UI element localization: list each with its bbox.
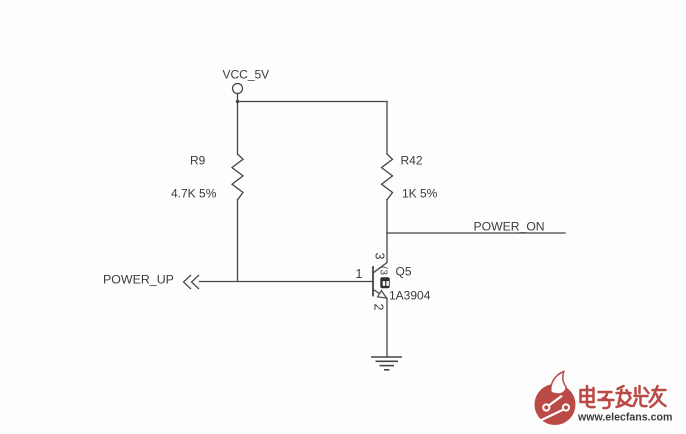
wire left column lower (R9 bottom to base rail) (237, 200, 239, 282)
transistor Q5 collector diagonal (373, 263, 387, 273)
wire base rail POWER_UP (200, 281, 374, 283)
wire emitter to ground (386, 299, 388, 357)
svg-text:1: 1 (356, 267, 363, 281)
pin name mark B bold rotated (380, 277, 389, 288)
svg-text:3: 3 (373, 253, 387, 260)
svg-text:2: 2 (372, 304, 386, 311)
watermark text dianzifashaoyou (581, 386, 666, 408)
wire collector vertical (386, 233, 388, 263)
watermark logo pad left (543, 404, 549, 410)
svg-text:(3: (3 (378, 266, 389, 275)
svg-text:POWER_ON: POWER_ON (474, 220, 545, 234)
svg-text:4.7K 5%: 4.7K 5% (171, 187, 217, 201)
watermark logo disc (535, 384, 576, 425)
wire VCC circle to top rail (237, 94, 239, 102)
resistor R42 body (382, 154, 393, 200)
wire R42 bottom to POWER_ON junction (386, 200, 388, 233)
wire top rail (238, 101, 388, 103)
wire right column upper (to R42 top) (386, 102, 388, 155)
power node VCC_5V circle (233, 84, 243, 94)
watermark logo pad right (563, 404, 569, 410)
resistor R9 body (232, 154, 243, 200)
watermark logo trace upper (549, 396, 562, 406)
wire left column upper (to R9 top) (237, 102, 239, 155)
svg-text:R9: R9 (190, 154, 206, 168)
watermark logo trace lower (541, 410, 564, 421)
svg-text:1A3904: 1A3904 (389, 289, 431, 303)
ground symbol (371, 357, 402, 370)
junction dot at top rail (236, 100, 239, 103)
transistor Q5 base bar (372, 267, 374, 296)
svg-text:VCC_5V: VCC_5V (223, 68, 270, 82)
svg-text:R42: R42 (401, 154, 423, 168)
svg-text:POWER_UP: POWER_UP (103, 273, 174, 287)
transistor Q5 emitter diagonal (373, 290, 387, 299)
svg-text:Q5: Q5 (396, 265, 412, 279)
wire POWER_ON rail (387, 232, 565, 234)
svg-text:1K 5%: 1K 5% (402, 187, 438, 201)
transistor Q5 emitter arrowhead (378, 291, 387, 298)
input port chevrons POWER_UP (184, 275, 200, 289)
svg-text:www.elecfans.com: www.elecfans.com (577, 412, 672, 424)
watermark logo leaf (551, 372, 566, 394)
